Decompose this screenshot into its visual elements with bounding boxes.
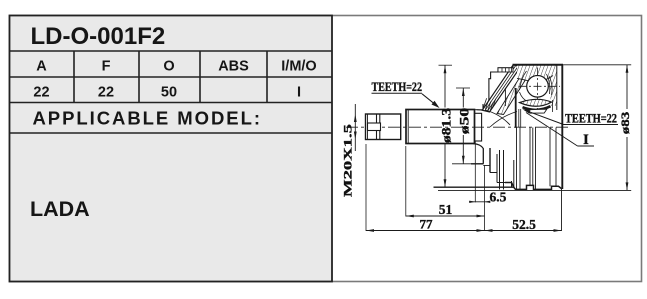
svg-text:O: O: [163, 59, 174, 75]
svg-text:APPLICABLE MODEL:: APPLICABLE MODEL:: [33, 108, 262, 129]
svg-text:51: 51: [439, 202, 453, 217]
svg-text:ø83: ø83: [618, 112, 632, 135]
svg-text:TEETH=22: TEETH=22: [565, 111, 617, 125]
svg-text:ABS: ABS: [218, 59, 249, 75]
svg-text:TEETH=22: TEETH=22: [372, 80, 423, 94]
svg-text:50: 50: [161, 85, 177, 101]
svg-text:77: 77: [420, 217, 434, 232]
svg-text:ø81.3: ø81.3: [440, 108, 454, 143]
svg-text:I: I: [297, 85, 301, 101]
svg-text:A: A: [36, 59, 47, 75]
svg-text:LD-O-001F2: LD-O-001F2: [31, 23, 166, 50]
svg-text:I/M/O: I/M/O: [281, 59, 316, 75]
svg-text:6.5: 6.5: [490, 190, 507, 205]
svg-text:ø50: ø50: [458, 108, 472, 135]
svg-text:22: 22: [33, 85, 49, 101]
svg-text:22: 22: [98, 85, 114, 101]
svg-text:LADA: LADA: [30, 197, 90, 221]
svg-text:52.5: 52.5: [512, 217, 536, 232]
svg-text:M20X1.5: M20X1.5: [343, 124, 355, 197]
svg-text:F: F: [102, 59, 111, 75]
